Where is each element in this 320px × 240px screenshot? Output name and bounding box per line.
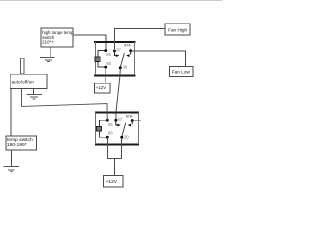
relay K2 coil link wire xyxy=(100,120,108,137)
relay K1 pin 85 xyxy=(104,49,107,52)
wire K1 87A to Fan Low xyxy=(131,51,186,67)
switch SW2 top tab xyxy=(21,58,25,74)
wire SW2 pin3 to ground xyxy=(33,89,35,95)
top image border line xyxy=(0,0,222,2)
relay K2 pin 87 contact arrow xyxy=(116,120,118,125)
svg-text:87A: 87A xyxy=(124,44,131,48)
svg-text:+12V: +12V xyxy=(96,85,106,90)
wire SW3 to ground xyxy=(10,150,12,166)
svg-text:Fan High: Fan High xyxy=(168,27,187,32)
relay K2 pin 87 xyxy=(114,119,117,122)
relay K2 pin 30 xyxy=(120,136,123,139)
relay K1 pin 87 xyxy=(113,50,116,53)
box +12V B1 xyxy=(95,83,110,93)
svg-text:85: 85 xyxy=(108,122,113,127)
relay K2 pin 85 xyxy=(106,119,109,122)
relay K2 switch arm xyxy=(122,123,126,137)
box +12V B2 xyxy=(104,176,123,187)
relay K2 pin 86 xyxy=(106,136,109,139)
svg-text:+12V: +12V xyxy=(106,179,118,185)
relay K1 coil link wire xyxy=(98,51,106,68)
wire K2 86 and 30 to +12V B2 xyxy=(107,137,121,175)
wire K1 87 to Fan High xyxy=(114,28,165,51)
relay K1 switch arm xyxy=(120,53,124,67)
svg-text:Fan Low: Fan Low xyxy=(172,70,191,75)
svg-text:auto/off/on: auto/off/on xyxy=(12,79,35,84)
svg-text:87: 87 xyxy=(116,48,121,53)
relay K1 box xyxy=(94,42,136,76)
relay K2 87A stub xyxy=(132,120,141,122)
wire SW2 pin2 to K2 85 xyxy=(22,89,108,121)
ground G1 xyxy=(40,58,54,62)
relay K2 pin 87A xyxy=(131,119,134,122)
box Fan Low xyxy=(170,66,193,76)
relay K1 pin 86 xyxy=(104,66,107,69)
ground G2 xyxy=(4,167,19,172)
relay K2 pin 87A contact arrow xyxy=(131,121,133,125)
relay K2 box xyxy=(95,112,139,144)
svg-text:85: 85 xyxy=(106,52,111,57)
relay K2 coil xyxy=(96,127,101,131)
switch SW3 temp switch 180-195* xyxy=(6,136,37,150)
relay K1 coil xyxy=(95,57,100,61)
wire K1 30 to K2 87 xyxy=(116,68,120,121)
wire SW1 to relay K1 pin 85 xyxy=(73,35,106,51)
switch SW2 auto/off/on xyxy=(10,74,47,88)
box Fan High xyxy=(165,24,190,35)
svg-text:86: 86 xyxy=(106,61,111,66)
switch SW1 high range temp switch 210*+ xyxy=(41,28,74,47)
svg-text:30: 30 xyxy=(123,65,128,70)
relay K1 pin 87A xyxy=(129,49,132,52)
wire SW2 pin1 to temp switch xyxy=(10,89,12,136)
svg-text:87A: 87A xyxy=(126,115,133,119)
svg-text:86: 86 xyxy=(108,131,113,136)
relay K1 pin 30 xyxy=(119,66,122,69)
svg-text:30: 30 xyxy=(124,135,129,140)
wire K1 86 to +12V xyxy=(105,67,107,83)
svg-text:180-195*: 180-195* xyxy=(7,142,27,148)
svg-text:87: 87 xyxy=(117,117,122,122)
relay K1 pin 87 contact arrow xyxy=(114,51,116,56)
wire SW1 to ground xyxy=(50,47,52,58)
relay K1 pin 87A contact arrow xyxy=(130,51,132,55)
svg-text:210*+: 210*+ xyxy=(42,40,54,45)
ground G3 xyxy=(26,95,42,99)
